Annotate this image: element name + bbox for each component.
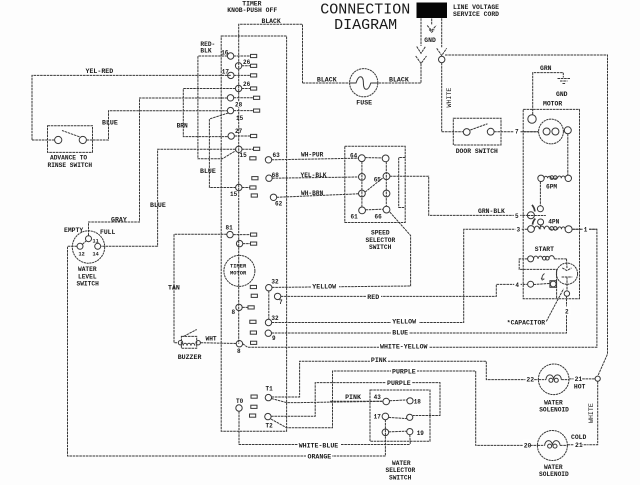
label COLD 21 — [571, 434, 587, 449]
label 8 — [232, 309, 236, 316]
wire hot 21 to node — [569, 378, 595, 380]
ground symbol motor — [558, 79, 571, 84]
terminal red-out — [251, 293, 281, 299]
ws terminal 18 — [407, 398, 413, 404]
wire RED-BLK from 16 — [198, 56, 236, 159]
wire YEL-RED — [32, 75, 231, 140]
wire pin7 inside — [523, 131, 538, 133]
svg-text:BLK: BLK — [200, 48, 211, 55]
wire YELLOW 32b to pin3 riser — [272, 229, 528, 322]
svg-text:16: 16 — [221, 49, 229, 56]
svg-text:YEL-RED: YEL-RED — [86, 68, 114, 75]
label T1 — [266, 386, 274, 393]
svg-text:1: 1 — [584, 226, 588, 233]
fuse F1 — [350, 69, 378, 97]
ws blade 17b-19 — [389, 430, 407, 433]
svg-text:PURPLE: PURPLE — [392, 368, 416, 375]
start switch inner box — [523, 269, 556, 298]
speed selector box — [345, 146, 405, 222]
wire WH-PUR 63 to 64 — [272, 158, 359, 160]
water level contacts — [77, 236, 101, 250]
svg-text:WHITE-YELLOW: WHITE-YELLOW — [380, 343, 428, 350]
advance-to-rinse switch box — [48, 126, 93, 153]
label WHITE (vertical) — [446, 88, 453, 108]
wire WHITE-BLUE T0 — [239, 411, 410, 444]
wire buzzer to 8 — [200, 342, 236, 345]
terminal 9 — [250, 330, 271, 336]
label 20 — [523, 440, 532, 450]
label 24 — [243, 81, 251, 88]
terminal 17 — [228, 72, 257, 78]
ws terminal 18b — [407, 414, 413, 420]
title CONNECTION DIAGRAM — [320, 2, 410, 35]
svg-text:WH-PUR: WH-PUR — [301, 152, 324, 159]
wire PURPLE T2 to 18b — [271, 383, 440, 417]
label 61 — [351, 214, 359, 221]
svg-text:32: 32 — [271, 278, 279, 285]
svg-text:BUZZER: BUZZER — [178, 354, 202, 361]
wire YEL-BLK 68 to 65 — [272, 177, 358, 178]
label 63 — [273, 152, 281, 159]
ws blade 43-18 — [390, 399, 407, 402]
svg-text:66: 66 — [375, 214, 383, 221]
wire 19 down to white-blue — [409, 435, 412, 445]
rinse switch contacts — [55, 131, 87, 144]
svg-text:LEVEL: LEVEL — [78, 273, 97, 280]
svg-text:SWITCH: SWITCH — [369, 244, 392, 251]
svg-text:GRAY: GRAY — [111, 217, 127, 224]
svg-text:GRN: GRN — [540, 65, 552, 72]
wire cold 21 — [567, 444, 588, 446]
label 68 — [272, 172, 280, 179]
label 7 small — [279, 299, 283, 306]
svg-text:SELECTOR: SELECTOR — [386, 467, 416, 474]
svg-text:6PM: 6PM — [546, 183, 557, 190]
timer motor M1 — [224, 255, 255, 286]
wire RED to pin4 — [281, 284, 527, 296]
svg-text:17: 17 — [222, 68, 230, 75]
svg-text:12: 12 — [79, 251, 85, 257]
label PINK 1 — [370, 355, 388, 364]
line voltage service cord (black block) — [417, 3, 448, 19]
svg-text:3: 3 — [517, 226, 521, 233]
svg-text:SERVICE CORD: SERVICE CORD — [453, 11, 499, 18]
ws blade 17-18b — [389, 417, 407, 418]
wire 65 to GRN-BLK pin5 — [390, 176, 528, 215]
wire GRAY riser — [89, 98, 228, 236]
svg-text:START: START — [535, 246, 554, 253]
label BRN — [177, 122, 188, 129]
svg-text:43: 43 — [374, 394, 382, 401]
svg-text:EMPTY: EMPTY — [64, 227, 83, 234]
svg-text:5: 5 — [515, 213, 519, 220]
label GRN — [540, 65, 552, 72]
svg-text:FUSE: FUSE — [356, 99, 372, 106]
plug arrow L2 — [416, 56, 427, 64]
label pin 3 — [515, 225, 521, 234]
label 15 under 28 — [236, 115, 244, 122]
svg-text:PURPLE: PURPLE — [387, 380, 411, 387]
label RED — [366, 292, 381, 301]
label 27 — [235, 128, 243, 135]
pin5 terminal — [527, 212, 545, 219]
wire pin1 — [572, 228, 597, 230]
label 16 — [221, 49, 229, 56]
label MOTOR — [543, 100, 562, 107]
terminal 32a — [250, 285, 272, 320]
label 65 — [374, 177, 382, 184]
svg-text:SOLENOID: SOLENOID — [539, 407, 569, 414]
door switch contacts — [463, 124, 494, 136]
svg-text:8: 8 — [237, 348, 241, 355]
svg-text:81: 81 — [226, 224, 234, 231]
svg-text:64: 64 — [350, 152, 358, 159]
terminal 27 — [228, 133, 257, 139]
svg-text:63: 63 — [273, 152, 281, 159]
label DOOR SWITCH — [456, 148, 498, 155]
wire white down to door switch — [442, 63, 464, 132]
terminal gray-in — [227, 95, 259, 101]
label pin 7 — [514, 127, 520, 136]
svg-text:11: 11 — [93, 239, 99, 245]
label ADVANCE TO RINSE SWITCH — [48, 155, 93, 169]
label BLUE row — [391, 328, 409, 337]
svg-text:FULL: FULL — [100, 229, 116, 236]
label TAN — [168, 285, 180, 292]
label BUZZER — [178, 354, 202, 361]
svg-text:WATER: WATER — [392, 460, 411, 467]
svg-text:T1: T1 — [266, 386, 274, 393]
label FULL — [100, 229, 116, 236]
label GRAY — [111, 217, 127, 224]
label 66 — [375, 214, 383, 221]
wire 17 down to orange — [384, 420, 386, 456]
start switch arrow — [541, 274, 544, 281]
label PURPLE 1 — [391, 366, 417, 375]
label 6PM — [546, 183, 557, 190]
label 18 — [414, 398, 422, 405]
label 19 — [417, 430, 425, 437]
label 15a — [240, 152, 248, 159]
svg-text:BLACK: BLACK — [317, 77, 337, 84]
wire YELLOW 32a to 66-drop — [272, 212, 411, 288]
wire fuse riser — [378, 64, 421, 84]
wire WHITE top run — [445, 55, 608, 376]
label ORANGE — [306, 452, 332, 460]
svg-text:14: 14 — [93, 251, 99, 257]
terminal T2 — [250, 413, 272, 419]
svg-text:22: 22 — [526, 377, 534, 384]
terminal 62 — [251, 194, 276, 201]
label WHITE vertical right — [588, 403, 595, 423]
svg-text:BLUE: BLUE — [150, 202, 166, 209]
plug arrow L1 — [417, 47, 426, 54]
label 2 — [563, 306, 570, 315]
svg-text:SWITCH: SWITCH — [389, 474, 412, 480]
winding START — [534, 256, 567, 260]
terminal T1 — [251, 394, 272, 400]
wire blade 28 down — [209, 113, 235, 188]
ws terminal 17b — [382, 429, 389, 436]
svg-text:T0: T0 — [236, 398, 244, 405]
svg-text:8: 8 — [232, 309, 236, 316]
terminal 8 junction — [236, 341, 257, 347]
motor bottom terminal 2 — [564, 291, 569, 296]
wire black fuse left — [303, 82, 350, 84]
ws terminal 19 — [407, 429, 413, 435]
motor right terminal — [564, 127, 571, 134]
label BLUE (inner) — [200, 168, 216, 175]
label 17 — [222, 68, 230, 75]
svg-text:62: 62 — [275, 200, 283, 207]
label 26 — [243, 59, 251, 66]
svg-text:SWITCH: SWITCH — [77, 281, 100, 288]
wire 6PM left drop — [539, 182, 541, 206]
svg-text:21: 21 — [575, 442, 583, 449]
water selector box — [370, 390, 430, 441]
label BLACK right of fuse — [389, 76, 409, 83]
svg-text:WATER: WATER — [544, 464, 563, 471]
svg-text:61: 61 — [351, 214, 359, 221]
blade 64 — [365, 157, 382, 159]
svg-text:WHT: WHT — [206, 336, 217, 343]
svg-text:SELECTOR: SELECTOR — [366, 237, 396, 244]
svg-text:15: 15 — [230, 191, 238, 198]
svg-text:28: 28 — [235, 101, 243, 108]
label GND (cord) — [424, 37, 436, 44]
wire black timer feed — [239, 24, 303, 83]
svg-text:YELLOW: YELLOW — [392, 318, 416, 325]
motor main circle — [539, 119, 564, 144]
node white junction — [439, 56, 445, 62]
label RED-BLK — [200, 41, 215, 55]
label T0 — [236, 398, 244, 405]
start switch contacts — [528, 281, 557, 288]
winding 4PN — [534, 226, 572, 233]
label SPEED SELECTOR SWITCH — [366, 230, 396, 252]
label 8 junction — [237, 348, 241, 355]
label 4PN — [548, 219, 559, 226]
label PURPLE 2 — [386, 378, 412, 387]
label 17 — [374, 414, 382, 421]
speed selector contacts left — [358, 155, 365, 214]
motor grn terminal — [528, 115, 536, 123]
label TIMER KNOB-PUSH OFF — [227, 1, 277, 14]
svg-text:4: 4 — [515, 282, 519, 289]
wire WHITE-YELLOW 8 to pin1 — [243, 229, 597, 347]
label *CAPACITOR — [507, 289, 564, 327]
label YELLOW 2 — [391, 317, 419, 326]
svg-text:DIAGRAM: DIAGRAM — [334, 17, 397, 34]
svg-text:9: 9 — [272, 335, 276, 342]
ws terminal 17 — [382, 413, 389, 420]
svg-text:21: 21 — [575, 376, 583, 383]
door switch box — [453, 118, 501, 145]
wire node down to cold — [589, 381, 598, 445]
contact c2 — [538, 219, 544, 229]
wire cord left leg — [420, 18, 422, 46]
label GND motor — [556, 91, 568, 98]
svg-text:BLACK: BLACK — [389, 76, 409, 83]
svg-text:TAN: TAN — [168, 285, 180, 292]
svg-text:MOTOR: MOTOR — [543, 100, 562, 107]
label pin 5 — [514, 212, 520, 221]
blade 65 — [365, 178, 383, 193]
terminal 15b — [236, 184, 256, 190]
label WATER SOLENOID cold — [539, 464, 569, 478]
svg-text:SPEED: SPEED — [371, 230, 390, 237]
label 28 — [235, 101, 245, 108]
svg-text:*CAPACITOR: *CAPACITOR — [507, 320, 546, 327]
label WATER LEVEL SWITCH — [77, 266, 100, 288]
label PINK 2 — [344, 393, 361, 401]
svg-text:32: 32 — [271, 315, 279, 322]
wire door to motor pin7 — [494, 131, 538, 133]
terminal 81 — [227, 231, 257, 237]
label EMPTY — [64, 227, 83, 234]
label 32a — [271, 278, 279, 285]
svg-text:KNOB-PUSH OFF: KNOB-PUSH OFF — [227, 7, 277, 14]
label YELLOW 1 — [311, 282, 339, 291]
wire rinse left — [32, 139, 55, 141]
wire PINK T1 to hot — [272, 361, 539, 397]
label WH-BRN — [301, 190, 324, 197]
terminal 243 — [236, 240, 256, 246]
svg-text:WHITE: WHITE — [446, 88, 453, 108]
svg-text:YEL-BLK: YEL-BLK — [301, 172, 327, 179]
terminal 63 — [250, 157, 272, 163]
svg-text:WH-BRN: WH-BRN — [301, 190, 324, 197]
wire T1 blade to 43 — [271, 399, 383, 403]
speed selector contacts right — [382, 155, 390, 213]
node junction — [595, 376, 600, 381]
gnd arrow under cord — [427, 19, 436, 33]
terminal T0 — [236, 405, 257, 411]
svg-text:26: 26 — [243, 59, 251, 66]
svg-text:2: 2 — [565, 309, 569, 316]
label YEL-RED — [86, 68, 114, 75]
label YEL-BLK — [301, 172, 327, 179]
label BLUE (rinse) — [102, 119, 118, 126]
label 64 — [350, 152, 358, 159]
cold solenoid — [537, 431, 567, 461]
terminal 26 — [235, 63, 256, 69]
label 32b — [271, 315, 279, 322]
start terminal — [528, 256, 534, 262]
label 22 — [525, 374, 534, 384]
svg-text:ORANGE: ORANGE — [308, 453, 332, 460]
wire PINK2 row — [330, 400, 383, 402]
labels 11 12 14 — [79, 239, 99, 258]
svg-text:T2: T2 — [266, 422, 274, 429]
svg-text:PINK: PINK — [345, 394, 361, 401]
svg-text:RED: RED — [367, 294, 379, 301]
label 21 HOT — [574, 373, 586, 390]
svg-text:BLUE: BLUE — [102, 119, 118, 126]
svg-text:DOOR SWITCH: DOOR SWITCH — [456, 148, 498, 155]
svg-text:15: 15 — [240, 152, 248, 159]
svg-text:26: 26 — [243, 81, 251, 88]
svg-text:20: 20 — [524, 442, 532, 449]
label WHITE-BLUE — [298, 440, 341, 449]
svg-text:27: 27 — [235, 128, 243, 135]
water level switch body — [72, 231, 104, 263]
label LINE VOLTAGE SERVICE CORD — [453, 4, 499, 18]
label 81 — [226, 224, 234, 231]
wire start left loop — [519, 259, 527, 270]
label WHITE-YELLOW — [379, 341, 429, 350]
wire pin1-whiteyellow riser already drawn — [0, 0, 1, 1]
motor box — [523, 109, 579, 298]
svg-text:7: 7 — [515, 129, 519, 136]
svg-text:SOLENOID: SOLENOID — [539, 471, 569, 478]
label WATER SOLENOID hot — [539, 399, 569, 413]
svg-text:GND: GND — [556, 91, 568, 98]
svg-text:WATER: WATER — [78, 266, 97, 273]
svg-text:7: 7 — [279, 299, 283, 306]
label TIMER MOTOR — [230, 264, 247, 277]
wire BLUE water level — [101, 149, 236, 246]
wire GRN — [533, 73, 564, 115]
label GRN-BLK — [478, 208, 505, 215]
blade 61 — [365, 208, 383, 211]
wire TAN — [174, 234, 227, 342]
label 15b — [230, 191, 238, 198]
svg-text:ADVANCE TO: ADVANCE TO — [50, 155, 87, 162]
wire PURPLE T2-blade to cold — [271, 371, 539, 445]
label WHT — [206, 336, 217, 343]
svg-text:19: 19 — [417, 430, 425, 437]
svg-text:CONNECTION: CONNECTION — [320, 2, 410, 19]
terminal 32b — [250, 319, 272, 325]
terminal 15a — [236, 146, 260, 152]
timer center column — [238, 36, 240, 344]
svg-text:17: 17 — [374, 414, 382, 421]
svg-text:BLUE: BLUE — [200, 168, 216, 175]
svg-text:WHITE: WHITE — [588, 403, 595, 423]
svg-text:BRN: BRN — [177, 122, 188, 129]
pin3 terminal — [528, 226, 535, 233]
label pin 4 — [514, 280, 520, 289]
svg-text:RINSE SWITCH: RINSE SWITCH — [48, 162, 93, 169]
label 62 — [275, 200, 283, 207]
terminal 24 — [235, 85, 256, 91]
svg-text:GRN-BLK: GRN-BLK — [478, 208, 505, 215]
svg-text:4PN: 4PN — [548, 219, 559, 226]
contact c1 — [537, 206, 543, 212]
svg-text:MOTOR: MOTOR — [230, 271, 247, 277]
svg-text:15: 15 — [236, 115, 244, 122]
wire 22 — [0, 0, 1, 1]
plug arrow R — [437, 48, 447, 55]
winding 6PM — [538, 175, 572, 181]
terminal 28 — [227, 107, 259, 113]
svg-text:BLUE: BLUE — [392, 329, 408, 336]
centrifugal arrow — [532, 205, 535, 225]
label BLACK left of fuse — [317, 77, 337, 84]
svg-text:HOT: HOT — [574, 383, 586, 390]
label T2 — [266, 422, 274, 429]
svg-text:65: 65 — [374, 177, 382, 184]
svg-text:WATER: WATER — [544, 399, 563, 406]
svg-text:YELLOW: YELLOW — [312, 283, 336, 290]
buzzer BZ — [178, 330, 200, 349]
wire cord right leg — [441, 18, 443, 47]
svg-text:WHITE-BLUE: WHITE-BLUE — [299, 442, 339, 449]
ws terminal 43 — [383, 398, 390, 405]
label 43 — [373, 393, 382, 401]
label pin 1 — [583, 225, 589, 234]
